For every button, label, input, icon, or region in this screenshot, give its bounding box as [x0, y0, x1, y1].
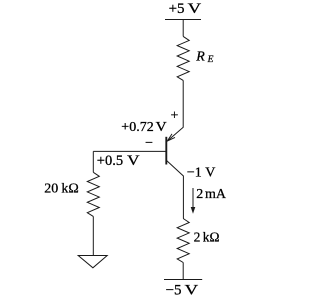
- svg-text:kΩ: kΩ: [61, 182, 78, 197]
- svg-text:kΩ: kΩ: [203, 230, 220, 245]
- svg-text:V: V: [185, 282, 199, 298]
- svg-text:E: E: [207, 55, 214, 65]
- svg-text:−1: −1: [187, 166, 202, 181]
- svg-text:V: V: [156, 120, 167, 135]
- svg-text:V: V: [188, 1, 202, 17]
- svg-text:2: 2: [194, 230, 201, 245]
- svg-text:−5: −5: [166, 282, 182, 298]
- svg-text:+5: +5: [169, 1, 185, 17]
- svg-text:V: V: [127, 153, 140, 169]
- svg-text:V: V: [205, 166, 215, 181]
- svg-text:+: +: [171, 108, 179, 123]
- svg-text:2: 2: [196, 187, 203, 202]
- svg-text:20: 20: [44, 182, 58, 197]
- svg-text:−: −: [145, 136, 153, 151]
- svg-text:mA: mA: [205, 187, 227, 202]
- svg-text:R: R: [195, 49, 205, 64]
- svg-text:+0.72: +0.72: [121, 120, 153, 135]
- svg-text:+0.5: +0.5: [97, 153, 123, 169]
